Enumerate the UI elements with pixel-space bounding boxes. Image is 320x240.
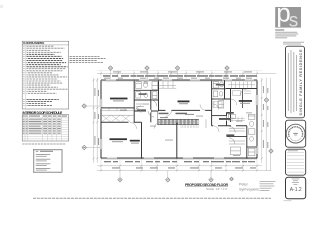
top dim text row lower — [103, 75, 110, 77]
stair arrow — [158, 121, 197, 123]
bedroom4 closet — [159, 81, 176, 88]
stair treads — [158, 119, 199, 124]
window — [222, 79, 232, 81]
window — [144, 157, 154, 159]
stair left rail post — [157, 110, 159, 119]
top dim text row upper — [113, 71, 121, 72]
interior wall — [159, 109, 212, 111]
right exterior wall — [256, 80, 258, 95]
window — [245, 79, 254, 81]
svg-text:A-1.2: A-1.2 — [290, 187, 302, 193]
interior wall — [230, 89, 232, 123]
window — [214, 157, 224, 159]
lower-right bath fixtures — [228, 114, 255, 155]
interior wall — [212, 115, 227, 117]
interior wall — [134, 99, 158, 101]
bath A label — [139, 93, 147, 95]
closet partitions — [108, 108, 110, 111]
interior wall — [227, 136, 247, 138]
interior wall — [150, 91, 152, 123]
svg-text:SINGLE FAMILY RESIDENCE: SINGLE FAMILY RESIDENCE — [299, 49, 303, 115]
stair rails — [158, 118, 200, 120]
dim line top — [97, 73, 276, 75]
bath A fixtures — [136, 82, 158, 111]
interior wall — [224, 80, 226, 99]
label BEDROOM #2 — [110, 138, 128, 140]
window — [100, 139, 102, 149]
svg-text:Symvoyanis: Symvoyanis — [239, 187, 259, 191]
stair lower flight — [181, 125, 198, 128]
top window tag diamonds — [108, 66, 112, 70]
master closet — [228, 82, 255, 105]
label wic — [226, 112, 234, 114]
interior wall — [101, 121, 142, 123]
stair right landing — [205, 119, 207, 128]
bottom dim lines — [97, 165, 262, 167]
window — [190, 79, 200, 81]
interior wall — [101, 107, 134, 109]
interior wall — [141, 122, 143, 158]
svg-text:Peter: Peter — [239, 183, 249, 187]
svg-text:INTERIOR DOOR SCHEDULE: INTERIOR DOOR SCHEDULE — [22, 111, 63, 115]
label BEDROOM #3 — [110, 98, 128, 100]
svg-text:FLOOR PLAN NOTES: FLOOR PLAN NOTES — [23, 41, 44, 45]
interior wall — [212, 98, 231, 100]
misc small text — [160, 117, 168, 118]
svg-text:SCALE : 1/4" = 1'-0": SCALE : 1/4" = 1'-0" — [206, 188, 228, 191]
dim line top secondary — [97, 70, 262, 72]
label mbath — [226, 134, 234, 136]
floor plan notes table — [22, 41, 105, 109]
seal circles — [286, 124, 305, 143]
interior wall — [158, 80, 160, 111]
closet front line — [101, 114, 134, 116]
corner mark — [0, 5, 3, 8]
top extension lines — [101, 70, 257, 79]
interior wall — [242, 89, 244, 109]
small diamond near title — [230, 177, 234, 181]
label laundry — [219, 118, 230, 120]
interior wall — [134, 110, 158, 112]
interior door schedule table — [22, 111, 68, 144]
right window tag diamonds — [264, 98, 268, 102]
label BEDROOM #5 — [130, 140, 140, 142]
interior wall — [226, 88, 257, 90]
bottom door tag diamonds — [118, 178, 122, 182]
wall legend box — [33, 149, 62, 172]
bottom exterior wall — [101, 157, 107, 159]
wic label — [137, 109, 146, 110]
interior wall — [134, 89, 158, 91]
seal box — [286, 120, 306, 147]
label hall — [159, 113, 169, 115]
project box — [286, 46, 305, 118]
window — [106, 79, 116, 81]
door openings — [166, 109, 172, 112]
interior wall — [176, 123, 178, 159]
window — [107, 157, 117, 159]
window — [256, 95, 258, 105]
interior wall — [212, 88, 226, 90]
top exterior wall — [101, 79, 106, 81]
bath B label — [216, 84, 224, 86]
title strip small text — [283, 41, 304, 44]
logo address block — [275, 30, 298, 39]
window size labels above wall — [104, 77, 110, 80]
interior wall — [212, 125, 247, 127]
svg-text:PROPOSED SECOND FLOOR: PROPOSED SECOND FLOOR — [185, 183, 228, 187]
signature details — [260, 181, 276, 191]
window — [139, 79, 149, 81]
right dim lines — [261, 78, 263, 163]
interior wall — [133, 80, 135, 122]
left window tag diamonds — [82, 104, 86, 108]
wic shelving — [213, 101, 245, 122]
window — [162, 79, 172, 81]
window — [256, 146, 258, 154]
project subtitle vertical — [295, 55, 298, 111]
corridor door arcs — [130, 104, 219, 131]
window — [100, 99, 102, 109]
bath B fixtures — [213, 82, 224, 110]
left exterior wall — [100, 80, 102, 99]
svg-text:s: s — [289, 10, 299, 31]
left dim lines — [93, 78, 95, 163]
top ticks — [100, 73, 258, 75]
label M BEDROOM — [239, 100, 252, 102]
window — [183, 157, 193, 159]
sheet box — [286, 177, 306, 199]
label open to below — [176, 113, 188, 115]
interior wall — [247, 146, 257, 148]
interior wall — [226, 113, 228, 126]
closet double doors X — [102, 115, 130, 121]
interior wall — [211, 80, 213, 126]
bottom disclaimer — [33, 197, 271, 199]
closet shelf line — [101, 110, 134, 112]
interior wall — [246, 126, 248, 159]
revision box — [286, 149, 306, 175]
label BEDROOM #4 — [178, 101, 190, 103]
PS logo — [275, 0, 301, 31]
